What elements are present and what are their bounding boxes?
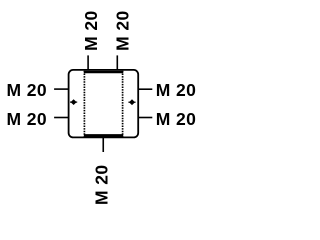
svg-text:M 20: M 20 [113, 10, 133, 51]
entry stub bottom [102, 137, 104, 152]
svg-text:M 20: M 20 [6, 80, 47, 100]
svg-text:M 20: M 20 [92, 164, 112, 205]
enclosure body outline [69, 70, 139, 137]
lid edge bottom (thick) [84, 134, 123, 137]
svg-text:M 20: M 20 [156, 80, 197, 100]
lid edge top (thick) [84, 71, 123, 74]
screw marker left [71, 99, 77, 105]
entry stub right upper [138, 88, 153, 90]
entry stub top-left [87, 55, 89, 70]
entry stub top-right [116, 55, 118, 70]
svg-text:M 20: M 20 [6, 109, 47, 129]
svg-text:M 20: M 20 [156, 109, 197, 129]
entry stub left upper [54, 88, 69, 90]
flange parting line left (dotted) [83, 71, 85, 136]
entry stub right lower [138, 117, 153, 119]
flange parting line right (dotted) [122, 71, 124, 136]
screw marker right [129, 99, 135, 105]
svg-text:M 20: M 20 [81, 10, 101, 51]
entry stub left lower [54, 117, 69, 119]
